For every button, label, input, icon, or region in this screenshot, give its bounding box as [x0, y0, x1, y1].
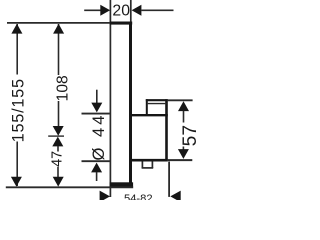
dim 20 right tail	[141, 9, 173, 11]
dim 108 upper stem	[58, 24, 60, 75]
handle top step top edge	[146, 99, 168, 101]
dim 20 right arrow	[132, 5, 142, 16]
dim 108 top arrow	[53, 24, 64, 34]
svg-text:47: 47	[49, 151, 65, 167]
tick between 108 and 47	[48, 135, 64, 137]
dim 47 bottom arrow	[53, 177, 64, 187]
dim 155/155 top arrow	[11, 24, 22, 34]
handle main box right edge	[165, 99, 168, 161]
dim 47 upper stem	[57, 146, 59, 152]
dim O44 bottom stem	[96, 172, 98, 181]
handle top step seam line	[148, 103, 167, 105]
dim 54-82 right extension line	[168, 162, 170, 197]
dim 20 left tail	[84, 9, 100, 11]
svg-text:54-82: 54-82	[124, 193, 153, 200]
dim 54-82 right arrow	[170, 191, 180, 203]
dim 57 lower stem	[182, 147, 184, 151]
svg-text:57: 57	[180, 125, 200, 146]
plate right edge extension line (20 dim)	[130, 0, 132, 22]
svg-text:Ø 44: Ø 44	[89, 113, 108, 161]
dim 108 bottom arrow	[53, 126, 64, 136]
dim 108 lower stem	[58, 101, 60, 128]
dim 155/155 bottom arrow	[11, 177, 22, 187]
dim O44 top arrow	[91, 103, 102, 113]
handle top step left edge	[146, 99, 148, 115]
dim 155/155 line lower stem	[16, 142, 18, 187]
plate top cap	[110, 22, 133, 25]
dim 155/155 line upper stem	[16, 24, 18, 75]
handle bottom nub bottom edge	[142, 167, 154, 169]
dim 57 upper stem	[183, 111, 185, 123]
svg-text:20: 20	[112, 2, 130, 19]
plate bottom cap	[110, 182, 134, 186]
plate right edge	[129, 22, 132, 187]
dim 57 top arrow	[178, 101, 189, 111]
dim 57 bottom arrow	[178, 149, 189, 159]
dim 47 lower stem	[57, 167, 59, 178]
dim 57 top extension line	[168, 99, 193, 101]
dim O44 bottom extension line	[82, 160, 110, 162]
svg-text:155/155: 155/155	[9, 78, 27, 142]
handle main box top edge	[132, 114, 168, 116]
dim 20 left arrow	[100, 5, 110, 16]
handle main box bottom edge	[131, 159, 168, 162]
dim O44 top extension line	[82, 113, 110, 115]
dim 57 bottom extension line	[168, 159, 192, 161]
dim O44 top stem	[96, 90, 98, 104]
plate left edge / wall line	[109, 0, 111, 197]
top extension line	[7, 22, 110, 24]
handle bottom nub left edge	[141, 161, 143, 168]
dim O44 bottom arrow	[91, 163, 102, 173]
bottom baseline	[6, 186, 133, 188]
dim 54-82 left arrow	[100, 191, 110, 203]
dim 47 top arrow	[52, 137, 63, 147]
handle bottom nub right edge	[151, 161, 153, 168]
svg-text:108: 108	[55, 75, 72, 101]
